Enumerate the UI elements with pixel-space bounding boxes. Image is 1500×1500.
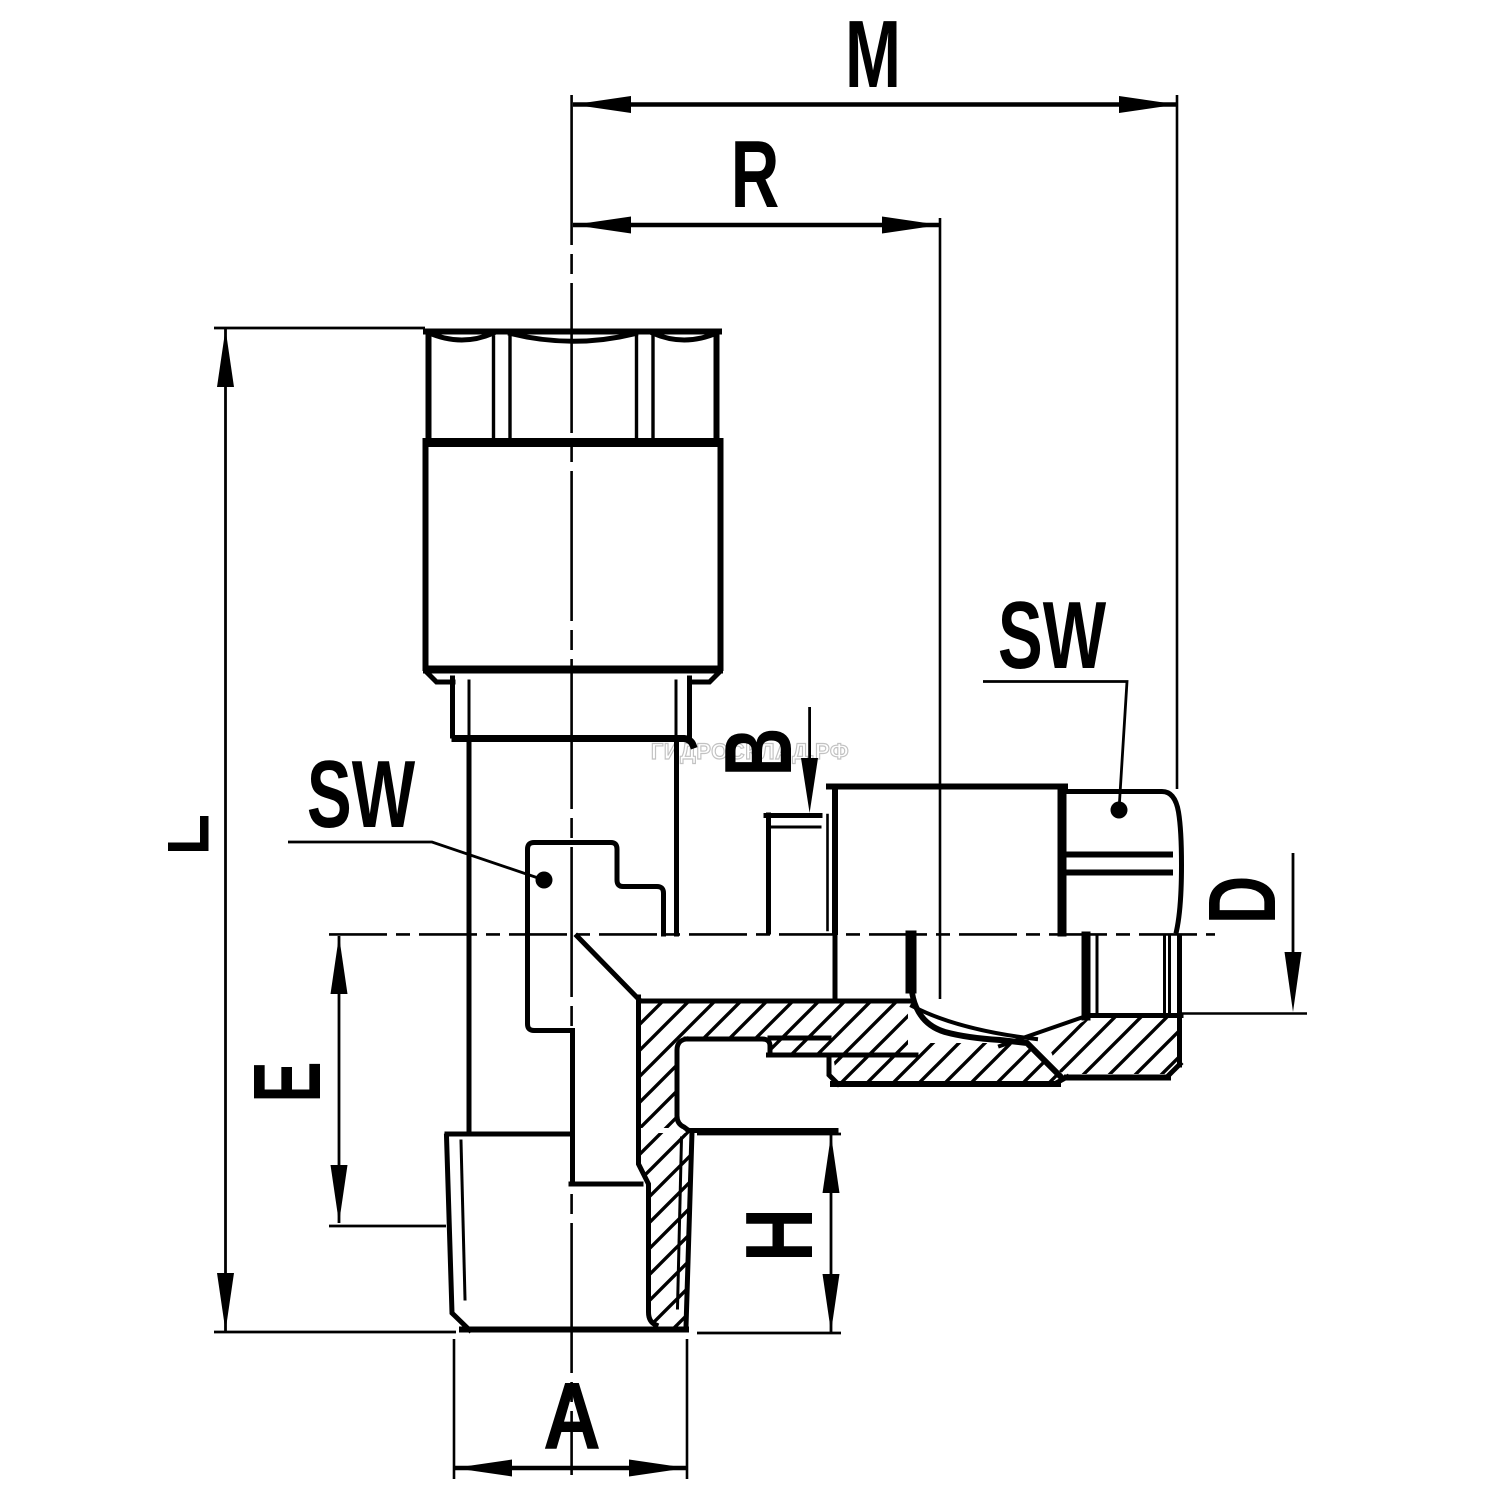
dimension D leader — [1182, 853, 1307, 1014]
swivel nut (right) — [1066, 792, 1182, 932]
svg-text:M: M — [845, 0, 901, 108]
B arrow — [801, 758, 818, 813]
thread runout curves at branch bore end — [911, 936, 1089, 1076]
dimension H — [697, 1134, 841, 1333]
cap bottom thick band — [427, 438, 719, 447]
threaded neck — [453, 678, 694, 745]
dimension M — [573, 95, 1177, 789]
nut internal (lower half, section) — [835, 936, 1181, 1065]
hatch: stem wall + branch near-stem band — [641, 1003, 908, 1128]
E arrows — [331, 936, 348, 994]
svg-text:A: A — [543, 1362, 601, 1469]
branch lower-half section top edge — [639, 999, 912, 1004]
section break edge below hex profile — [570, 1031, 575, 1185]
bottom male taper thread stub — [447, 1132, 693, 1330]
H arrows — [823, 1135, 840, 1193]
top cap (collet nut) — [426, 332, 719, 443]
svg-text:B: B — [704, 728, 812, 777]
dimension L — [214, 328, 456, 1332]
centerline branch horizontal — [329, 933, 1215, 936]
svg-text:SW: SW — [307, 740, 416, 848]
hatch: under swivel nut — [1047, 1018, 1177, 1074]
arrowheads — [217, 96, 1302, 1477]
svg-text:H: H — [726, 1208, 833, 1262]
hatch: stub right wall — [641, 1133, 692, 1327]
label L (rotated corner glyph) — [168, 816, 209, 851]
hatch: band under relief/hex — [833, 1043, 1058, 1081]
stem — [469, 742, 677, 1134]
branch: diagonal chamfer from stem — [577, 936, 639, 999]
A arrows — [454, 1460, 512, 1477]
dimension R — [573, 218, 940, 999]
dimension B leader — [808, 707, 811, 760]
svg-text:SW: SW — [998, 581, 1107, 689]
M arrows — [573, 96, 631, 113]
branch hex body — [828, 787, 1066, 933]
dimension E — [329, 936, 446, 1226]
branch upper half: thread relief step — [766, 815, 820, 932]
branch bore pocket (section) — [677, 1039, 916, 1131]
svg-text:D: D — [1188, 876, 1296, 925]
branch lower exterior edges (section boundary) — [769, 1038, 1181, 1084]
svg-text:R: R — [731, 120, 780, 228]
SW right leader dot — [1111, 802, 1128, 819]
L arrows — [217, 329, 234, 387]
D arrow — [1285, 952, 1302, 1012]
SW hex flat profile on stem — [528, 843, 664, 1031]
R arrows — [573, 217, 631, 234]
SW right leader — [983, 682, 1127, 811]
dimension A — [454, 1339, 687, 1479]
sleeve body — [426, 447, 721, 682]
SW left leader dot — [536, 872, 553, 889]
SW left leader — [288, 842, 544, 880]
stub internal bore (section) — [571, 997, 656, 1325]
svg-text:E: E — [234, 1062, 341, 1103]
centerline vertical — [570, 95, 573, 1475]
